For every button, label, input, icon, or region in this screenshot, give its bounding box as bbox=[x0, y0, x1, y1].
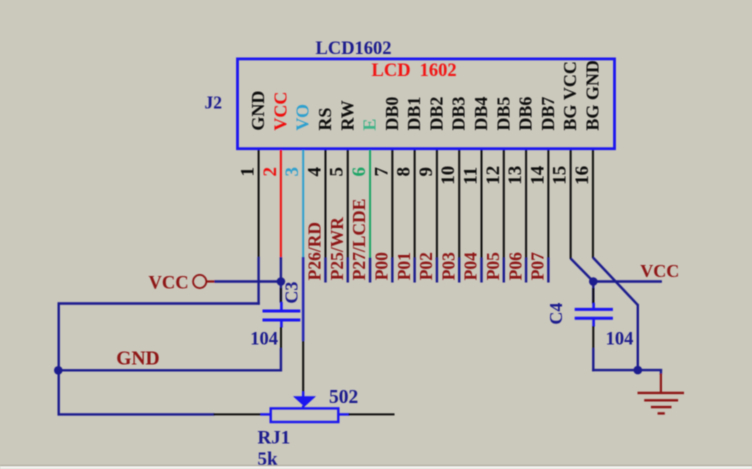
svg-text:BG GND: BG GND bbox=[582, 60, 602, 131]
svg-text:VO: VO bbox=[293, 104, 313, 131]
svg-text:GND: GND bbox=[248, 91, 268, 131]
svg-text:9: 9 bbox=[416, 167, 437, 177]
svg-text:DB3: DB3 bbox=[449, 97, 469, 131]
svg-text:P06: P06 bbox=[505, 252, 525, 280]
svg-text:15: 15 bbox=[550, 166, 571, 185]
svg-text:13: 13 bbox=[505, 166, 526, 185]
svg-text:VCC: VCC bbox=[640, 261, 679, 281]
svg-text:502: 502 bbox=[329, 387, 358, 408]
svg-text:J2: J2 bbox=[205, 92, 223, 112]
svg-text:104: 104 bbox=[606, 329, 634, 349]
svg-text:7: 7 bbox=[371, 166, 392, 176]
svg-text:P01: P01 bbox=[394, 252, 414, 280]
svg-text:P25/WR: P25/WR bbox=[327, 217, 347, 281]
svg-text:GND: GND bbox=[116, 349, 159, 370]
svg-text:RW: RW bbox=[337, 100, 357, 130]
svg-text:3: 3 bbox=[282, 167, 303, 177]
svg-text:P00: P00 bbox=[372, 252, 392, 280]
svg-text:16: 16 bbox=[572, 166, 593, 185]
svg-text:12: 12 bbox=[483, 166, 504, 185]
svg-text:10: 10 bbox=[438, 166, 459, 185]
svg-text:DB5: DB5 bbox=[493, 97, 513, 131]
svg-text:DB7: DB7 bbox=[538, 97, 558, 131]
svg-text:1: 1 bbox=[238, 167, 259, 177]
svg-text:4: 4 bbox=[304, 166, 325, 176]
svg-text:E: E bbox=[360, 119, 380, 131]
svg-text:P07: P07 bbox=[528, 252, 548, 280]
svg-text:VCC: VCC bbox=[270, 92, 290, 131]
svg-text:DB6: DB6 bbox=[516, 97, 536, 131]
svg-text:C4: C4 bbox=[546, 303, 566, 325]
svg-text:8: 8 bbox=[394, 167, 415, 177]
svg-text:DB0: DB0 bbox=[382, 97, 402, 131]
svg-text:C3: C3 bbox=[282, 282, 302, 304]
svg-text:DB1: DB1 bbox=[404, 97, 424, 131]
svg-text:11: 11 bbox=[461, 167, 482, 185]
svg-text:P04: P04 bbox=[461, 252, 481, 280]
svg-text:LCD: LCD bbox=[372, 61, 411, 81]
svg-text:5: 5 bbox=[327, 167, 348, 177]
svg-text:P26/RD: P26/RD bbox=[305, 222, 325, 280]
svg-text:5k: 5k bbox=[258, 449, 279, 469]
svg-text:104: 104 bbox=[250, 330, 278, 350]
svg-text:1602: 1602 bbox=[420, 61, 457, 81]
svg-text:P03: P03 bbox=[438, 252, 458, 280]
svg-text:6: 6 bbox=[349, 167, 370, 177]
svg-text:RJ1: RJ1 bbox=[258, 428, 291, 449]
svg-text:P02: P02 bbox=[416, 252, 436, 280]
svg-text:DB4: DB4 bbox=[471, 97, 491, 131]
svg-text:VCC: VCC bbox=[149, 274, 189, 294]
svg-text:14: 14 bbox=[527, 165, 548, 185]
svg-text:RS: RS bbox=[315, 108, 335, 131]
svg-text:2: 2 bbox=[260, 167, 281, 177]
svg-text:P05: P05 bbox=[483, 252, 503, 280]
svg-text:BG VCC: BG VCC bbox=[560, 61, 580, 131]
svg-text:DB2: DB2 bbox=[426, 97, 446, 131]
svg-text:LCD1602: LCD1602 bbox=[316, 39, 392, 59]
svg-text:P27/LCDE: P27/LCDE bbox=[349, 199, 369, 281]
